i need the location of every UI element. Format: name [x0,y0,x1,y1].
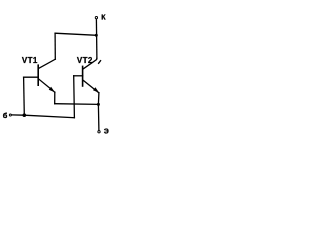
svg-text:К: К [101,15,106,22]
transistor VT1 collector diagonal [39,59,55,68]
node collector junction [95,34,98,37]
transistor VT2 collector diagonal [83,58,97,68]
transistor VT2 emitter diagonal [83,80,99,92]
node emitter junction [97,103,100,106]
wire E terminal drop [97,104,100,130]
terminal E circle [98,131,100,133]
wire VT1 collector riser [54,33,56,59]
terminal K circle [95,17,97,19]
wire VT1 base lead [24,76,39,78]
wire K vertical [95,19,98,58]
svg-text:VT1: VT1 [22,56,38,65]
node base junction [23,113,27,117]
svg-text:Э: Э [104,129,109,136]
transistor VT1 emitter arrow [49,87,55,93]
wire emitter bus [55,103,99,106]
transistor VT1 base bar [37,65,39,85]
wire VT1 base drop [23,77,26,115]
svg-text:VT2: VT2 [77,56,93,65]
wire b to VT2 base riser [73,76,76,118]
wire base terminal line [12,115,75,118]
transistor VT2 emitter arrow [93,87,99,93]
svg-text:б: б [3,111,8,120]
wire VT2 base lead [74,75,83,77]
terminal b circle [9,114,11,116]
transistor VT2 base bar [82,66,84,86]
wire VT1 emitter drop [54,92,56,104]
collector join tick [99,61,101,64]
wire VT2 emitter drop [97,93,100,105]
wire top collector bus [55,33,96,35]
transistor VT1 emitter diagonal [39,79,55,92]
